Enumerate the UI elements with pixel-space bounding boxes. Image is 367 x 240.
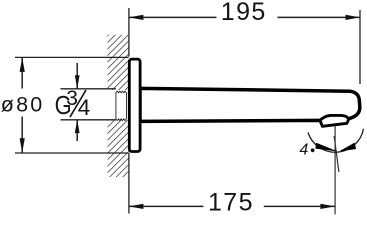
angle right arrow <box>339 143 356 152</box>
diameter 80 dimension line lower <box>21 117 23 153</box>
inlet pipe thread left side <box>115 93 117 119</box>
wall face / 195 extension line upper <box>128 8 130 57</box>
wall hatch lower <box>108 120 130 177</box>
extension line diameter 80 bottom <box>15 152 129 154</box>
svg-text:195: 195 <box>221 0 267 26</box>
dimension 175 line right segment <box>264 205 335 207</box>
degree dot <box>311 148 315 152</box>
svg-text:175: 175 <box>208 188 254 216</box>
angle left arrow <box>315 143 337 152</box>
dimension 195 line left segment <box>129 16 217 18</box>
svg-text:4: 4 <box>78 95 91 120</box>
dimension 195 line right segment <box>278 16 361 18</box>
G3/4 dimension line lower <box>76 120 78 141</box>
angle dimension arc <box>308 129 364 152</box>
195 right arrow <box>346 15 361 20</box>
diameter 80 dimension line upper <box>21 57 23 88</box>
175 right arrow <box>320 204 335 209</box>
svg-text:4: 4 <box>299 141 308 158</box>
diameter 80 bottom arrow <box>20 138 25 153</box>
aerator bulge at spout outlet <box>320 115 349 126</box>
wall face / 175 extension line lower <box>128 153 130 214</box>
inlet pipe thread top crest <box>116 91 126 93</box>
extension line G3/4 top <box>61 88 116 90</box>
fraction slash <box>70 90 86 117</box>
inlet pipe thread bottom crest <box>116 119 126 121</box>
inlet pipe thread right side <box>126 93 128 119</box>
195 right extension line <box>359 10 361 84</box>
outlet centre line <box>334 118 336 214</box>
dimension 175 line left segment <box>129 205 204 207</box>
195 left arrow <box>129 15 144 20</box>
G3/4 bottom arrow <box>75 120 80 134</box>
spout body <box>140 88 360 122</box>
extension line diameter 80 top <box>15 56 129 58</box>
flange <box>129 59 140 151</box>
diameter 80 top arrow <box>20 57 25 72</box>
G3/4 dimension line upper <box>76 63 78 89</box>
svg-text:ø80: ø80 <box>1 93 45 117</box>
spray angle line (4 deg) <box>334 136 339 172</box>
wall hatch upper <box>108 35 130 90</box>
175 left arrow <box>129 204 144 209</box>
G3/4 top arrow <box>75 75 80 89</box>
extension line G3/4 bottom <box>61 119 116 121</box>
